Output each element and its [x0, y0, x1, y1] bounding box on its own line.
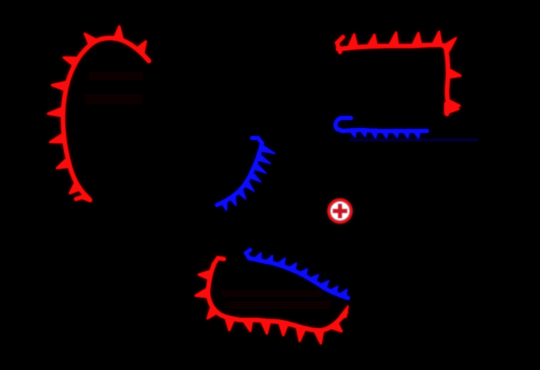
red front 2 (top-right right angle): [337, 32, 461, 114]
faint erased line under blue front 1: [350, 139, 478, 142]
faint erased line under blue front 1: [350, 139, 478, 142]
blue front 2 (center arc): [217, 138, 275, 211]
low-pressure center symbol (circled plus): [329, 200, 351, 222]
soft glow underlay duplicating the front lines: [48, 26, 478, 343]
faint erased label bars (upper-left): [85, 72, 143, 104]
faint erased label bars (bottom-middle): [221, 290, 331, 309]
red front 1 (upper-left arc): [48, 26, 149, 200]
blue front 1 (horizontal, right-middle): [336, 118, 478, 140]
red front 3 (bottom curve): [196, 258, 348, 343]
blue front 3 (lower curve): [246, 250, 348, 298]
